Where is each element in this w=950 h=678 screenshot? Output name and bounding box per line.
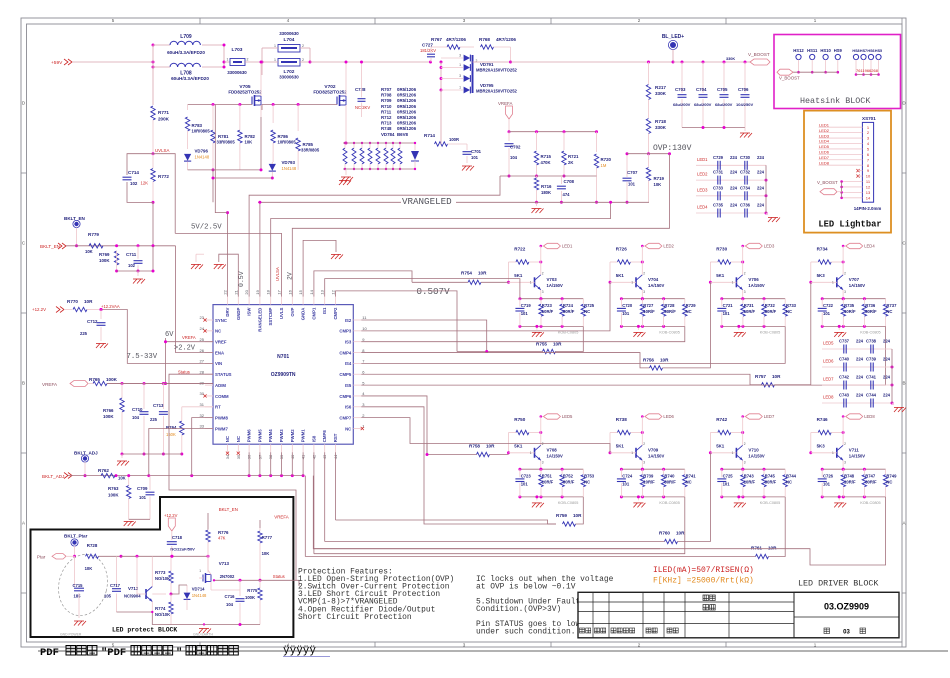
capacitor C720 bbox=[617, 299, 633, 327]
svg-text:LED5: LED5 bbox=[562, 414, 573, 419]
svg-text:C704: C704 bbox=[696, 87, 707, 92]
resistor R715 bbox=[534, 132, 551, 178]
label VRANGELED bbox=[401, 196, 456, 207]
svg-text:R782: R782 bbox=[245, 134, 256, 139]
svg-text:LED DRIVER BLOCK: LED DRIVER BLOCK bbox=[798, 579, 879, 589]
wire rails ch1 bbox=[518, 297, 583, 328]
resistor R721 bbox=[562, 132, 579, 178]
resistor bank R707-R713 R748 bbox=[343, 142, 415, 170]
resistor R718 bbox=[646, 119, 666, 156]
wire rails ch8 bbox=[821, 468, 886, 499]
label OVP bbox=[653, 144, 692, 153]
svg-text:R733: R733 bbox=[786, 303, 797, 308]
LED tag LED5 bbox=[540, 414, 574, 419]
svg-text:R755: R755 bbox=[536, 342, 547, 347]
svg-text:LED1: LED1 bbox=[562, 244, 573, 249]
svg-text:C715: C715 bbox=[73, 583, 84, 588]
svg-text:104: 104 bbox=[226, 602, 234, 607]
net V_BOOST bbox=[748, 52, 770, 65]
svg-text:LED3: LED3 bbox=[697, 187, 708, 192]
connector XS701 LED lightbar bbox=[804, 111, 891, 233]
svg-text:33R/0805: 33R/0805 bbox=[301, 148, 320, 153]
svg-text:BL_LED+: BL_LED+ bbox=[662, 34, 684, 40]
wire CMP7 route bbox=[361, 418, 610, 453]
svg-text:1: 1 bbox=[459, 63, 461, 67]
capacitor row C737 C738 bbox=[822, 339, 892, 354]
svg-text:10R/F: 10R/F bbox=[744, 480, 756, 485]
svg-text:at OVP is below ~0.1V: at OVP is below ~0.1V bbox=[476, 583, 576, 592]
transistor V708 bbox=[509, 417, 564, 471]
svg-text:C732: C732 bbox=[740, 170, 751, 175]
svg-text:LED4: LED4 bbox=[819, 139, 830, 144]
svg-text:V708: V708 bbox=[547, 447, 558, 452]
wire L709 branch bbox=[153, 45, 224, 67]
svg-text:HS6: HS6 bbox=[867, 49, 874, 53]
svg-text:10R: 10R bbox=[478, 271, 487, 276]
net BKLT_ADJ stem bbox=[74, 451, 98, 478]
svg-text:KOB-C0805: KOB-C0805 bbox=[659, 501, 679, 505]
svg-text:R754: R754 bbox=[461, 271, 472, 276]
label 7.5-33V bbox=[127, 353, 158, 361]
svg-text:V710: V710 bbox=[748, 447, 759, 452]
svg-text:R777: R777 bbox=[262, 535, 273, 540]
label LED DRIVER BLOCK bbox=[798, 579, 879, 589]
svg-text:224: 224 bbox=[856, 375, 864, 380]
svg-text:R748: R748 bbox=[844, 474, 855, 479]
svg-text:R707: R707 bbox=[381, 87, 392, 92]
svg-text:R751: R751 bbox=[542, 474, 553, 479]
svg-text:33000630: 33000630 bbox=[227, 70, 247, 75]
capacitor row C740 C739 bbox=[822, 357, 894, 372]
svg-text:R739: R739 bbox=[643, 474, 654, 479]
svg-text:UVLS: UVLS bbox=[279, 307, 284, 319]
resistor R726 bbox=[609, 247, 644, 284]
svg-text:IS8: IS8 bbox=[311, 435, 316, 442]
resistor R714 bbox=[424, 90, 467, 146]
svg-text:NC: NC bbox=[886, 309, 892, 314]
svg-text:R726: R726 bbox=[616, 247, 627, 252]
wire BKLT_EN rail bbox=[66, 244, 176, 247]
resistor R776 bbox=[206, 530, 229, 573]
svg-text:474: 474 bbox=[563, 192, 571, 197]
svg-text:1A/150V: 1A/150V bbox=[648, 283, 665, 288]
svg-text:0R5/1206: 0R5/1206 bbox=[397, 115, 417, 120]
svg-text:IS1: IS1 bbox=[322, 307, 327, 314]
transistor V710 bbox=[710, 417, 765, 471]
svg-text:100K: 100K bbox=[108, 493, 119, 498]
svg-text:C702: C702 bbox=[510, 145, 521, 150]
ground ch1 bbox=[532, 325, 544, 337]
svg-text:R736: R736 bbox=[865, 303, 876, 308]
svg-text:10R: 10R bbox=[84, 299, 93, 304]
svg-text:R747: R747 bbox=[865, 474, 876, 479]
wire capbank bus bbox=[891, 349, 893, 403]
ground mosfet bbox=[339, 181, 351, 186]
svg-text:10R/0805: 10R/0805 bbox=[192, 129, 211, 134]
net BKLT_ADJ port bbox=[42, 473, 72, 480]
svg-text:0R5/1206: 0R5/1206 bbox=[397, 104, 417, 109]
net +12.2VAA bbox=[100, 304, 120, 311]
svg-text:LED protect BLOCK: LED protect BLOCK bbox=[112, 627, 177, 634]
wire IS1 route bbox=[325, 279, 520, 299]
ground GNDP2 bbox=[191, 254, 204, 269]
resistor R742 bbox=[709, 417, 744, 454]
svg-text:3: 3 bbox=[459, 54, 461, 58]
resistor R748 bbox=[841, 469, 856, 497]
capacitor C728 bbox=[355, 61, 370, 118]
svg-text:CMP5: CMP5 bbox=[339, 372, 352, 377]
svg-text:101: 101 bbox=[139, 495, 147, 500]
svg-text:14: 14 bbox=[309, 289, 314, 294]
label FKHz bbox=[653, 577, 754, 586]
svg-text:KOB-C0805: KOB-C0805 bbox=[558, 501, 578, 505]
label UVLSA vert bbox=[275, 267, 280, 281]
wire UVLSA to bus bbox=[153, 154, 175, 246]
svg-text:R775: R775 bbox=[247, 588, 258, 593]
svg-text:225: 225 bbox=[150, 417, 158, 422]
svg-text:14: 14 bbox=[866, 195, 871, 200]
svg-text:PDF: PDF bbox=[40, 647, 59, 659]
svg-text:LED6: LED6 bbox=[823, 359, 834, 364]
wire GNDA route bbox=[303, 240, 336, 296]
LED tag LED2 bbox=[641, 243, 675, 248]
svg-text:1A/150V: 1A/150V bbox=[547, 453, 564, 458]
resistor R725 bbox=[581, 299, 595, 327]
wire ADIM pin wire bbox=[107, 383, 213, 385]
svg-text:101: 101 bbox=[823, 482, 831, 487]
svg-text:LED Lightbar: LED Lightbar bbox=[818, 220, 881, 230]
svg-text:224: 224 bbox=[757, 170, 765, 175]
svg-text:10R/F: 10R/F bbox=[542, 480, 554, 485]
svg-text:LED4: LED4 bbox=[697, 205, 708, 210]
resistor R770 bbox=[64, 299, 101, 312]
capacitor C714 bbox=[123, 154, 154, 203]
svg-text:GNDA: GNDA bbox=[301, 308, 306, 321]
transistor V713 mosfet bbox=[199, 556, 240, 590]
ferrite L703 bbox=[227, 47, 249, 75]
diode VD714 bbox=[171, 585, 207, 610]
svg-text:10R/F: 10R/F bbox=[844, 480, 856, 485]
svg-text:C741: C741 bbox=[866, 375, 877, 380]
svg-text:7.5-33V: 7.5-33V bbox=[127, 353, 158, 361]
svg-text:+12.2V: +12.2V bbox=[164, 513, 178, 518]
svg-text:2: 2 bbox=[744, 271, 746, 275]
svg-text:200K: 200K bbox=[158, 117, 170, 122]
svg-text:3: 3 bbox=[844, 290, 846, 294]
transistor V711 bbox=[811, 417, 866, 471]
svg-text:LED8: LED8 bbox=[823, 395, 834, 400]
svg-text:5K1: 5K1 bbox=[716, 444, 725, 449]
svg-text:101: 101 bbox=[823, 311, 831, 316]
svg-text:31: 31 bbox=[200, 402, 205, 407]
wire DRV route bbox=[215, 105, 229, 297]
label 2V bbox=[287, 272, 294, 280]
resistor R746 bbox=[809, 417, 844, 454]
svg-text:C744: C744 bbox=[866, 393, 877, 398]
node L-in bbox=[152, 44, 155, 69]
svg-text:C717: C717 bbox=[110, 583, 121, 588]
svg-text:LED2: LED2 bbox=[819, 128, 830, 133]
wire switch node bbox=[309, 48, 443, 64]
net VREFA protect bbox=[260, 515, 289, 529]
ground ch3 bbox=[734, 325, 746, 337]
svg-text:30R/F: 30R/F bbox=[865, 480, 877, 485]
resistor R786 bbox=[271, 130, 296, 162]
transistor V703 bbox=[509, 246, 564, 300]
svg-text:1A/150V: 1A/150V bbox=[849, 453, 866, 458]
svg-text:224: 224 bbox=[883, 339, 891, 344]
svg-text:BKLT_EN: BKLT_EN bbox=[40, 244, 60, 249]
svg-text:30R/F: 30R/F bbox=[563, 480, 575, 485]
label resistor list bbox=[381, 87, 417, 137]
resistor R738 bbox=[609, 417, 644, 454]
svg-text:R722: R722 bbox=[514, 247, 525, 252]
capacitor C717 bbox=[104, 556, 121, 612]
label pdf watermark bbox=[38, 645, 948, 659]
capacitor C701 bbox=[463, 144, 482, 163]
wire OVP node bbox=[627, 152, 671, 155]
svg-text:5K1: 5K1 bbox=[616, 444, 625, 449]
svg-text:VREFA: VREFA bbox=[498, 101, 512, 106]
svg-text:R718: R718 bbox=[655, 119, 666, 124]
op-amp U1 IC N701 OZ9909TN body bbox=[213, 305, 353, 445]
svg-text:PWM3: PWM3 bbox=[279, 429, 284, 443]
svg-text:R743: R743 bbox=[744, 474, 755, 479]
LED tag LED3 bbox=[741, 243, 775, 248]
ground R763 bbox=[124, 522, 136, 527]
svg-text:10R/F: 10R/F bbox=[744, 309, 756, 314]
svg-text:14PIN-2.0mm: 14PIN-2.0mm bbox=[854, 206, 882, 211]
svg-text:224: 224 bbox=[883, 357, 891, 362]
svg-text:R767: R767 bbox=[431, 37, 442, 42]
svg-text:LED8: LED8 bbox=[819, 160, 830, 165]
svg-text:R779: R779 bbox=[88, 232, 99, 237]
svg-text:3: 3 bbox=[459, 74, 461, 78]
svg-text:1: 1 bbox=[530, 451, 532, 455]
svg-text:R785: R785 bbox=[303, 142, 314, 147]
svg-text:R783: R783 bbox=[192, 123, 203, 128]
svg-text:21: 21 bbox=[233, 289, 238, 294]
net UVLSA bbox=[152, 148, 170, 155]
resistor R782 bbox=[238, 105, 256, 170]
wire rails ch2 bbox=[620, 297, 685, 328]
svg-text:224: 224 bbox=[730, 170, 738, 175]
capacitor row C743 C744 bbox=[822, 393, 894, 408]
resistor R774 bbox=[155, 594, 173, 625]
svg-text:R729: R729 bbox=[686, 303, 697, 308]
svg-text:105: 105 bbox=[104, 594, 112, 599]
svg-text:V_BOOST: V_BOOST bbox=[748, 52, 770, 57]
wire status out bbox=[293, 580, 299, 586]
svg-text:3: 3 bbox=[542, 290, 544, 294]
IC NC pin marks bbox=[203, 318, 364, 454]
label kob ch3 bbox=[760, 330, 780, 334]
resistor R772 bbox=[141, 154, 170, 204]
svg-text:10K: 10K bbox=[85, 249, 93, 254]
net VREFA tag bbox=[42, 381, 88, 388]
capacitor C727 bbox=[420, 43, 436, 63]
svg-text:30R/F: 30R/F bbox=[865, 309, 877, 314]
wire ptar rail bbox=[121, 555, 210, 558]
svg-text:L703: L703 bbox=[232, 47, 243, 53]
wire status to pin bbox=[169, 374, 296, 580]
resistor R733 bbox=[783, 299, 797, 327]
capacitor C709 bbox=[137, 476, 155, 520]
wire rails ch4 bbox=[821, 297, 886, 328]
svg-text:ADIM: ADIM bbox=[215, 383, 226, 388]
svg-text:R771: R771 bbox=[158, 110, 169, 115]
svg-text:R217: R217 bbox=[655, 85, 666, 90]
resistor R722 bbox=[507, 247, 542, 284]
wire GNDP route bbox=[219, 254, 239, 296]
resistor R754 bbox=[412, 271, 509, 285]
svg-text:1: 1 bbox=[274, 44, 276, 48]
svg-text:STATUS: STATUS bbox=[215, 372, 232, 377]
svg-text:224: 224 bbox=[757, 185, 765, 190]
ground divider bbox=[532, 202, 544, 213]
svg-text:5K1: 5K1 bbox=[514, 273, 523, 278]
svg-text:101: 101 bbox=[521, 311, 529, 316]
svg-text:C727: C727 bbox=[422, 43, 433, 48]
inductor L709 bbox=[167, 34, 205, 55]
svg-text:>2.2V: >2.2V bbox=[174, 345, 196, 353]
svg-text:R763: R763 bbox=[108, 486, 119, 491]
svg-text:181/2KV: 181/2KV bbox=[420, 48, 436, 53]
svg-text:1: 1 bbox=[832, 280, 834, 284]
svg-text:33000630: 33000630 bbox=[279, 31, 299, 36]
resistor R744 bbox=[783, 469, 797, 497]
svg-text:VD784: VD784 bbox=[381, 132, 395, 137]
svg-text:PWM7: PWM7 bbox=[215, 426, 229, 431]
svg-text:224: 224 bbox=[883, 375, 891, 380]
svg-text:PWM8: PWM8 bbox=[215, 415, 229, 420]
capacitor row C742 C741 bbox=[822, 375, 894, 390]
svg-text:10K: 10K bbox=[245, 140, 253, 145]
svg-text:10K: 10K bbox=[262, 551, 270, 556]
svg-text:CMP2: CMP2 bbox=[333, 307, 338, 320]
wire IS5 route bbox=[361, 326, 885, 385]
wire CMP1 route bbox=[314, 271, 412, 297]
resistor R751 bbox=[539, 469, 554, 497]
wire IS6 route bbox=[361, 407, 556, 524]
resistor R768 bbox=[479, 37, 516, 62]
svg-text:470K: 470K bbox=[541, 160, 551, 165]
wire divider top rail bbox=[509, 130, 598, 133]
LED protect block outline bbox=[31, 497, 294, 637]
svg-text:C734: C734 bbox=[740, 185, 751, 190]
svg-text:4R7/1206: 4R7/1206 bbox=[496, 37, 516, 42]
svg-text:100K: 100K bbox=[245, 595, 255, 600]
svg-text:+12.2V: +12.2V bbox=[32, 307, 46, 312]
capacitor C725 bbox=[717, 469, 733, 497]
ground output caps bbox=[740, 133, 752, 138]
svg-text:OZ9909TN: OZ9909TN bbox=[271, 372, 296, 378]
svg-text:0R5/1206: 0R5/1206 bbox=[397, 126, 417, 131]
svg-text:12: 12 bbox=[331, 289, 336, 294]
ground ch4 bbox=[834, 325, 846, 337]
resistor R737 bbox=[883, 299, 897, 327]
svg-text:C709: C709 bbox=[137, 486, 148, 491]
svg-text:10K: 10K bbox=[85, 566, 93, 571]
svg-text:R748: R748 bbox=[381, 126, 392, 131]
svg-text:V704: V704 bbox=[648, 277, 659, 282]
svg-text:HS12: HS12 bbox=[793, 48, 804, 53]
svg-text:C708: C708 bbox=[564, 179, 575, 184]
svg-text:CMP3: CMP3 bbox=[339, 329, 352, 334]
svg-text:10R: 10R bbox=[486, 444, 495, 449]
svg-text:Heatsink BLOCK: Heatsink BLOCK bbox=[800, 96, 871, 106]
svg-text:NC: NC bbox=[215, 329, 221, 334]
wire ISW route bbox=[249, 176, 500, 297]
svg-text:GND EARTH: GND EARTH bbox=[193, 633, 213, 637]
wire to L703 bbox=[224, 61, 230, 63]
svg-text:0R5/1206: 0R5/1206 bbox=[397, 98, 417, 103]
net +12.2V bbox=[32, 307, 64, 313]
title block table bbox=[578, 592, 899, 638]
svg-text:R730: R730 bbox=[716, 247, 727, 252]
label 6V bbox=[165, 331, 174, 339]
svg-text:PWM2: PWM2 bbox=[290, 429, 295, 443]
svg-text:C742: C742 bbox=[839, 375, 850, 380]
svg-text:LED7: LED7 bbox=[823, 377, 834, 382]
wire gate rail V705 bbox=[188, 103, 252, 110]
svg-text:CMP1: CMP1 bbox=[311, 307, 316, 320]
svg-text:1: 1 bbox=[227, 58, 229, 62]
svg-text:5K1: 5K1 bbox=[616, 273, 625, 278]
svg-text:BKLT_EN: BKLT_EN bbox=[64, 216, 86, 221]
wire nest outer bbox=[305, 476, 660, 557]
resistor R743 bbox=[741, 469, 756, 497]
svg-text:C731: C731 bbox=[713, 170, 724, 175]
ferrite L702 bbox=[262, 58, 310, 80]
capacitor C707 bbox=[623, 152, 639, 204]
svg-text:R772: R772 bbox=[158, 174, 169, 179]
svg-text:150K: 150K bbox=[166, 432, 176, 437]
capacitor C716 bbox=[225, 580, 245, 624]
svg-text:2: 2 bbox=[643, 442, 645, 446]
svg-text:R762: R762 bbox=[98, 468, 109, 473]
svg-text:HS8: HS8 bbox=[852, 49, 859, 53]
resistor R731 bbox=[741, 299, 756, 327]
svg-text:C736: C736 bbox=[740, 203, 751, 208]
svg-text:MBR20A150V/TO252: MBR20A150V/TO252 bbox=[476, 89, 518, 94]
svg-text:101: 101 bbox=[723, 311, 731, 316]
svg-text:2: 2 bbox=[302, 58, 304, 62]
net VREFA top bbox=[498, 101, 513, 133]
svg-text:R741: R741 bbox=[686, 474, 697, 479]
net BKLT_Ptar bbox=[64, 534, 88, 558]
svg-text:1N4148: 1N4148 bbox=[195, 155, 210, 160]
svg-text:C720: C720 bbox=[622, 303, 633, 308]
svg-text:101: 101 bbox=[521, 482, 529, 487]
resistor R747 bbox=[862, 469, 877, 497]
wire IS4 route bbox=[361, 326, 785, 363]
wire BKLT_ADJ rail bbox=[68, 474, 305, 477]
svg-text:PWM6: PWM6 bbox=[247, 429, 252, 443]
svg-text:B6V8: B6V8 bbox=[397, 132, 409, 137]
svg-text:R712: R712 bbox=[381, 115, 392, 120]
svg-text:KOB-C0805: KOB-C0805 bbox=[860, 330, 880, 334]
svg-text:B: B bbox=[902, 381, 905, 386]
svg-text:10R: 10R bbox=[772, 374, 781, 379]
resistor R732 bbox=[762, 299, 777, 327]
svg-text:V706: V706 bbox=[748, 277, 759, 282]
svg-text:NC: NC bbox=[584, 480, 590, 485]
svg-text:NO/10K: NO/10K bbox=[155, 612, 170, 617]
svg-text:29: 29 bbox=[200, 380, 205, 385]
resistor R779 bbox=[85, 232, 103, 254]
wire IS8 CMP8 RST drops bbox=[314, 452, 336, 554]
